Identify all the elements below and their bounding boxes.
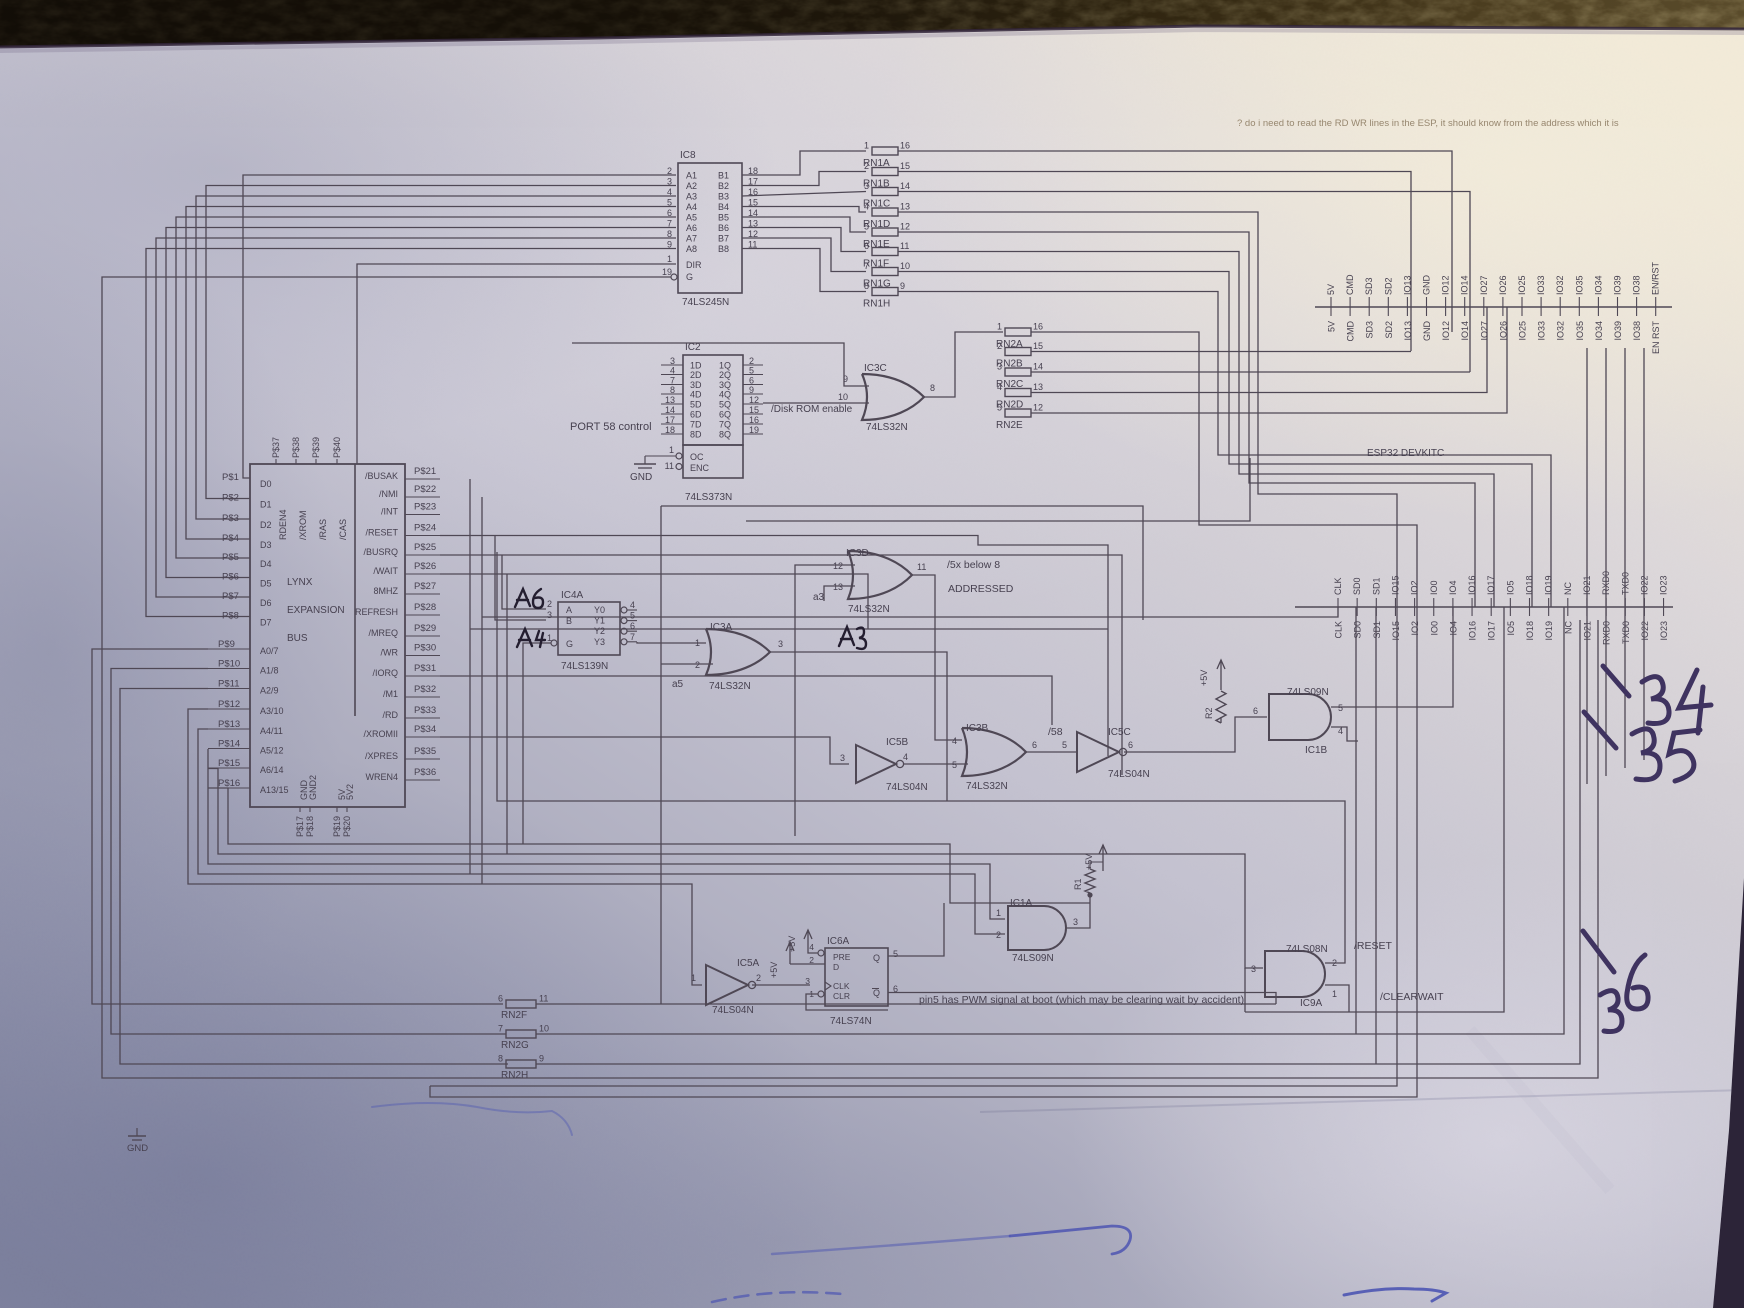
- svg-text:/BUSAK: /BUSAK: [365, 471, 398, 481]
- wire IC2 5Q to IC3C pin10 /Disk ROM enable: [763, 402, 869, 404]
- svg-text:P$18: P$18: [305, 816, 315, 837]
- svg-text:B3: B3: [718, 192, 729, 202]
- resistor network element RN1E: [863, 222, 910, 251]
- svg-text:A4/11: A4/11: [260, 726, 283, 736]
- wire IC4A G to P$16 net: [523, 643, 551, 844]
- svg-text:IC3D: IC3D: [846, 548, 869, 559]
- blue pen stroke bottom center: [712, 1292, 842, 1302]
- svg-text:CLK: CLK: [833, 981, 850, 991]
- svg-text:P$25: P$25: [414, 542, 436, 553]
- svg-text:/IORQ: /IORQ: [372, 668, 398, 678]
- svg-text:7: 7: [498, 1024, 503, 1034]
- svg-text:A6/14: A6/14: [260, 765, 284, 775]
- svg-text:7Q: 7Q: [719, 420, 731, 430]
- svg-text:EN/RST: EN/RST: [1651, 261, 1661, 295]
- wire RN1H staircase to ESP32 bottom header: [898, 292, 1551, 608]
- svg-text:P$10: P$10: [218, 659, 240, 670]
- svg-text:NC: NC: [1563, 621, 1573, 634]
- svg-text:G: G: [686, 272, 693, 282]
- resistor network element RN2G: [498, 1024, 549, 1052]
- svg-text:IO32: IO32: [1556, 321, 1566, 341]
- svg-text:D1: D1: [260, 500, 272, 510]
- svg-text:IO14: IO14: [1460, 321, 1470, 341]
- svg-text:D6: D6: [260, 598, 272, 608]
- svg-text:IO38: IO38: [1632, 275, 1642, 295]
- connector J1 LYNX EXPANSION BUS: [208, 437, 440, 837]
- svg-text:B6: B6: [718, 223, 729, 233]
- svg-text:P$9: P$9: [218, 639, 235, 650]
- svg-text:B5: B5: [718, 213, 729, 223]
- wire RN1F staircase to ESP32 bottom header: [898, 252, 1494, 608]
- wire IC8 pin19 G long net to bottom bus: [102, 277, 1598, 1078]
- svg-text:IO17: IO17: [1486, 575, 1496, 595]
- svg-text:/WAIT: /WAIT: [373, 566, 398, 576]
- svg-text:R1: R1: [1073, 878, 1083, 890]
- svg-text:IC3C: IC3C: [864, 363, 887, 374]
- wire IC1B pin4 stub: [1331, 727, 1358, 741]
- svg-text:14: 14: [1033, 362, 1043, 372]
- svg-text:BUS: BUS: [287, 633, 308, 644]
- svg-text:/CAS: /CAS: [338, 519, 348, 540]
- svg-text:5: 5: [997, 403, 1002, 413]
- resistor network element RN2F: [498, 994, 548, 1022]
- svg-text:2D: 2D: [690, 370, 702, 380]
- svg-text:A6: A6: [686, 223, 697, 233]
- svg-text:1: 1: [667, 254, 672, 264]
- svg-text:IO26: IO26: [1498, 275, 1508, 295]
- svg-text:IO12: IO12: [1441, 275, 1451, 295]
- svg-text:2: 2: [756, 973, 761, 983]
- svg-text:GND: GND: [630, 472, 652, 483]
- svg-text:GND: GND: [1422, 275, 1432, 296]
- svg-text:TXD0: TXD0: [1621, 621, 1631, 644]
- wire long net y617 CLK: [482, 607, 1338, 617]
- svg-text:P$7: P$7: [222, 591, 239, 602]
- svg-text:IO39: IO39: [1613, 321, 1623, 341]
- svg-text:4: 4: [809, 942, 814, 952]
- svg-text:13: 13: [1033, 382, 1043, 392]
- OR gate IC3A 74LS32N: [695, 622, 783, 692]
- svg-text:5: 5: [893, 949, 898, 959]
- svg-text:6: 6: [1253, 706, 1258, 716]
- svg-text:/Disk ROM enable: /Disk ROM enable: [771, 404, 853, 415]
- svg-text:IC1B: IC1B: [1305, 745, 1328, 756]
- svg-text:SD1: SD1: [1371, 577, 1381, 595]
- svg-text:/RESET: /RESET: [1354, 940, 1393, 952]
- wire IC8 B8 to RN1H: [742, 249, 866, 292]
- resistor network element RN1A: [863, 141, 910, 170]
- wire IC1B output pin5 to IO4: [1331, 607, 1453, 707]
- svg-text:IC9A: IC9A: [1300, 998, 1323, 1009]
- wire ESP32 top header net down right side: [1605, 348, 1607, 776]
- svg-text:IO19: IO19: [1544, 621, 1554, 641]
- wire bottom long net y1097 from IO2: [430, 607, 1417, 1097]
- resistor network element RN2E: [996, 403, 1043, 432]
- svg-text:CLK: CLK: [1333, 577, 1343, 595]
- svg-text:7: 7: [630, 632, 635, 642]
- svg-text:5V: 5V: [1326, 284, 1336, 295]
- handwritten mark 35 with slash: [1584, 712, 1700, 781]
- svg-text:a5: a5: [672, 679, 684, 690]
- svg-text:6: 6: [498, 994, 503, 1004]
- svg-text:1: 1: [691, 973, 696, 983]
- svg-text:11: 11: [900, 241, 909, 251]
- inverter IC5B 74LS04N: [840, 737, 928, 793]
- wire bottom long net y1086 from IO15: [430, 607, 1397, 1086]
- svg-text:RN2H: RN2H: [501, 1070, 528, 1081]
- svg-text:IO19: IO19: [1544, 575, 1554, 595]
- svg-text:74LS04N: 74LS04N: [712, 1005, 754, 1016]
- svg-text:4Q: 4Q: [719, 390, 731, 400]
- svg-text:P$24: P$24: [414, 523, 436, 534]
- svg-text:P$1: P$1: [222, 472, 239, 483]
- wire RN2B pin15 to IO13 vertical: [1031, 351, 1411, 353]
- svg-text:IO15: IO15: [1390, 575, 1400, 595]
- wire IC8 A2 to P$2: [206, 186, 676, 499]
- svg-text:4: 4: [997, 382, 1002, 392]
- svg-text:6: 6: [1128, 740, 1133, 750]
- wire IC8 A1 to P$1: [243, 175, 676, 478]
- wire P$22 vertical: [481, 497, 483, 884]
- blue pen stroke faint upper: [372, 1103, 572, 1135]
- OR gate IC3B 74LS32N: [952, 723, 1037, 792]
- svg-text:16: 16: [900, 141, 910, 151]
- svg-text:IO33: IO33: [1536, 275, 1546, 295]
- wire IC5A out to IC6A CLK: [752, 984, 810, 986]
- svg-text:IO5: IO5: [1506, 621, 1516, 636]
- svg-text:Q: Q: [873, 953, 880, 963]
- wire IC9A pin3 riser: [1244, 968, 1246, 1012]
- svg-text:SD3: SD3: [1364, 277, 1374, 295]
- ESP32 DEVKITC top pin header: [1315, 261, 1672, 354]
- wire RN1B to ESP32 IO13: [898, 172, 1411, 352]
- wire a5 net vertical: [660, 506, 662, 1004]
- wire IC8 pin1 DIR: [357, 264, 676, 464]
- wire IC3C pin9 input: [572, 343, 869, 386]
- wire RN2A pin16 staircase to IO2: [1031, 332, 1417, 607]
- svg-text:13: 13: [900, 202, 910, 212]
- svg-text:3Q: 3Q: [719, 380, 731, 390]
- wire RN2D pin13: [1031, 307, 1487, 393]
- wire P$11 to RN2H: [120, 689, 508, 1065]
- svg-text:P$17: P$17: [295, 816, 305, 837]
- wire IC3A output: [770, 652, 947, 801]
- svg-text:74LS04N: 74LS04N: [1108, 769, 1150, 780]
- svg-text:6: 6: [864, 241, 869, 251]
- wire bottom net y1020: [1245, 607, 1504, 1012]
- svg-text:IO15: IO15: [1391, 621, 1401, 641]
- svg-text:RDEN4: RDEN4: [278, 509, 288, 540]
- handwritten mark 36 with slash: [1583, 931, 1648, 1032]
- wire long net y629: [470, 628, 1108, 630]
- svg-text:10: 10: [539, 1024, 549, 1034]
- resistor network element RN1F: [863, 241, 909, 270]
- resistor R2 pullup: [1204, 691, 1226, 723]
- svg-text:D5: D5: [260, 579, 272, 589]
- svg-text:RN2F: RN2F: [501, 1010, 527, 1021]
- svg-text:P$33: P$33: [414, 705, 436, 716]
- svg-text:CMD: CMD: [1346, 321, 1356, 342]
- svg-text:5V: 5V: [1327, 321, 1337, 332]
- svg-text:Q: Q: [873, 988, 880, 998]
- handwritten A6: [515, 589, 543, 608]
- wire IC6A Q output: [888, 903, 944, 956]
- IC IC2 74LS373N latch: [661, 342, 763, 503]
- svg-text:8: 8: [864, 281, 869, 291]
- svg-text:74LS08N: 74LS08N: [1286, 944, 1328, 955]
- svg-text:IC3B: IC3B: [966, 723, 989, 734]
- svg-text:5: 5: [1338, 703, 1343, 713]
- svg-text:SD1: SD1: [1372, 621, 1382, 639]
- svg-text:P$20: P$20: [342, 816, 352, 837]
- svg-text:IO5: IO5: [1505, 580, 1515, 595]
- handwritten mark 34 with slash: [1603, 666, 1711, 733]
- svg-text:/NMI: /NMI: [379, 489, 398, 499]
- svg-text:4: 4: [864, 202, 869, 212]
- wire IC1A output to R1: [1066, 895, 1090, 928]
- svg-text:DIR: DIR: [686, 260, 702, 270]
- svg-text:? do i need to read the RD WR: ? do i need to read the RD WR lines in t…: [1237, 118, 1619, 129]
- svg-text:74LS09N: 74LS09N: [1012, 953, 1054, 964]
- svg-text:B4: B4: [718, 202, 729, 212]
- svg-text:74LS32N: 74LS32N: [966, 781, 1008, 792]
- svg-text:15: 15: [1033, 341, 1043, 351]
- svg-text:P$3: P$3: [222, 513, 239, 524]
- svg-text:1D: 1D: [690, 361, 702, 371]
- svg-text:19: 19: [662, 267, 672, 277]
- wire SD1 drop to RN2H net: [1375, 607, 1377, 1064]
- svg-text:/58: /58: [1048, 726, 1063, 738]
- svg-text:A3: A3: [686, 192, 697, 202]
- svg-text:/XPRES: /XPRES: [365, 751, 398, 761]
- blue pen stroke long bottom: [772, 1236, 1010, 1254]
- svg-text:+5V: +5V: [769, 962, 779, 978]
- svg-text:A1/8: A1/8: [260, 666, 279, 676]
- svg-text:9: 9: [539, 1054, 544, 1064]
- svg-text:P$37: P$37: [271, 437, 281, 458]
- svg-text:74LS74N: 74LS74N: [830, 1016, 872, 1027]
- svg-text:A13/15: A13/15: [260, 785, 289, 795]
- wire P$24 /RESET: [440, 536, 1108, 757]
- svg-text:P$32: P$32: [414, 684, 436, 695]
- svg-text:IO35: IO35: [1574, 275, 1584, 295]
- svg-text:14: 14: [900, 181, 910, 191]
- svg-text:P$38: P$38: [291, 437, 301, 458]
- wire P$26: [440, 574, 868, 629]
- svg-text:P$31: P$31: [414, 663, 436, 674]
- svg-text:REFRESH: REFRESH: [355, 607, 398, 617]
- svg-text:P$14: P$14: [218, 739, 240, 750]
- svg-text:IO34: IO34: [1594, 321, 1604, 341]
- svg-text:ADDRESSED: ADDRESSED: [948, 583, 1014, 595]
- svg-text:3: 3: [840, 753, 845, 763]
- svg-text:6: 6: [630, 621, 635, 631]
- svg-text:12: 12: [1033, 403, 1043, 413]
- wire ESP32 top header net down right side: [1586, 348, 1588, 784]
- wire IC8 B5 to RN1E: [742, 217, 866, 232]
- wire IC9A pin1 /CLEARWAIT: [1325, 985, 1349, 1012]
- resistor network element RN2C: [996, 362, 1043, 391]
- svg-text:74LS373N: 74LS373N: [685, 492, 732, 503]
- resistor network element RN2H: [498, 1054, 544, 1082]
- svg-text:12: 12: [900, 222, 910, 232]
- svg-text:P$23: P$23: [414, 502, 436, 513]
- svg-text:P$6: P$6: [222, 572, 239, 583]
- svg-text:Y3: Y3: [594, 637, 605, 647]
- svg-text:CLK: CLK: [1334, 621, 1344, 639]
- svg-text:5: 5: [952, 760, 957, 770]
- svg-text:B1: B1: [718, 171, 729, 181]
- svg-text:8: 8: [930, 383, 935, 393]
- svg-text:IO2: IO2: [1410, 580, 1420, 595]
- svg-text:/MREQ: /MREQ: [368, 628, 398, 638]
- svg-text:4: 4: [630, 600, 635, 610]
- svg-text:EN RST: EN RST: [1651, 321, 1661, 355]
- svg-text:5V2: 5V2: [345, 784, 355, 800]
- svg-text:/RD: /RD: [383, 710, 399, 720]
- svg-text:IC5A: IC5A: [737, 958, 760, 969]
- svg-text:GND: GND: [1422, 321, 1432, 342]
- power +5V at R1: [1084, 845, 1107, 871]
- wire RN1C to ESP32 IO14: [898, 192, 1470, 373]
- svg-text:P$15: P$15: [218, 758, 240, 769]
- wire IC2 area long net: [661, 506, 1143, 620]
- svg-text:3: 3: [1251, 964, 1256, 974]
- svg-text:IO23: IO23: [1659, 621, 1669, 641]
- svg-text:IC1A: IC1A: [1010, 898, 1033, 909]
- svg-text:ENC: ENC: [690, 463, 710, 473]
- power +5V at R2: [1199, 660, 1225, 690]
- ground symbol GND at IC2 OC: [630, 456, 676, 483]
- svg-text:IO23: IO23: [1659, 575, 1669, 595]
- OR gate IC3D 74LS32N: [833, 548, 926, 615]
- handwritten A4: [517, 629, 545, 647]
- wire P$10 to RN2G: [111, 669, 506, 1035]
- svg-text:11: 11: [665, 461, 674, 471]
- svg-text:IO12: IO12: [1441, 321, 1451, 341]
- wire long net y521: [746, 458, 1250, 521]
- svg-text:Y1: Y1: [594, 616, 605, 626]
- svg-text:/RESET: /RESET: [365, 528, 398, 538]
- svg-text:P$4: P$4: [222, 533, 239, 544]
- wire IC8 A6 to P$6: [166, 228, 676, 578]
- svg-text:RN1H: RN1H: [863, 299, 890, 310]
- svg-text:74LS32N: 74LS32N: [848, 604, 890, 615]
- svg-text:IO32: IO32: [1555, 275, 1565, 295]
- resistor network element RN1D: [863, 202, 910, 231]
- inverter IC5C 74LS04N: [1077, 727, 1150, 780]
- svg-text:SD2: SD2: [1384, 321, 1394, 339]
- wire P$26 branch riser: [506, 574, 508, 854]
- svg-text:B: B: [566, 616, 572, 626]
- svg-text:P$12: P$12: [218, 699, 240, 710]
- svg-text:2: 2: [997, 341, 1002, 351]
- svg-text:A3/10: A3/10: [260, 706, 284, 716]
- svg-text:IC5C: IC5C: [1108, 727, 1131, 738]
- svg-text:11: 11: [539, 994, 548, 1004]
- svg-text:A7: A7: [686, 234, 697, 244]
- wire IC6A CLR loop: [806, 994, 888, 1010]
- svg-text:CMD: CMD: [1345, 274, 1355, 295]
- svg-text:3: 3: [864, 181, 869, 191]
- svg-text:IO39: IO39: [1613, 275, 1623, 295]
- svg-text:4: 4: [903, 752, 908, 762]
- wire IC5C out to IC1B pin6: [1124, 717, 1267, 752]
- svg-text:4: 4: [952, 736, 957, 746]
- svg-text:IO17: IO17: [1487, 621, 1497, 641]
- svg-text:R2: R2: [1204, 707, 1214, 719]
- wire IC4A Y3 to IC3A pin1: [637, 642, 706, 643]
- svg-text:7D: 7D: [690, 420, 702, 430]
- svg-text:IC3A: IC3A: [710, 622, 733, 633]
- svg-text:10: 10: [900, 261, 910, 271]
- svg-text:G: G: [566, 639, 573, 649]
- wire IC8 B1 to RN1A: [742, 151, 866, 175]
- svg-text:A: A: [566, 605, 572, 615]
- wire P$13 to IC1A pin2: [198, 729, 1005, 934]
- AND gate IC1A 74LS09N: [996, 898, 1078, 964]
- wire P$15 staircase: [208, 769, 1263, 969]
- wire IC6A Qbar output: [888, 993, 1276, 1005]
- svg-text:A1: A1: [686, 171, 697, 181]
- ground symbol GND bottom left: [127, 1128, 148, 1154]
- svg-text:B8: B8: [718, 244, 729, 254]
- svg-text:IO18: IO18: [1525, 575, 1535, 595]
- wire IC8 B2 to RN1B: [742, 172, 866, 186]
- svg-text:P$40: P$40: [332, 437, 342, 458]
- handwritten A3: [839, 627, 866, 649]
- svg-text:P$11: P$11: [218, 679, 239, 690]
- wire IC3B out to IC5C: [1026, 751, 1077, 753]
- svg-text:P$21: P$21: [414, 466, 436, 477]
- svg-text:/RAS: /RAS: [318, 519, 328, 540]
- svg-text:1: 1: [1332, 989, 1337, 999]
- svg-text:IO2: IO2: [1410, 621, 1420, 636]
- blue pen stroke long bottom right part: [1010, 1226, 1131, 1254]
- wire RN1E staircase to ESP32 bottom header: [898, 232, 1475, 607]
- wire IC3D pin13: [824, 586, 855, 601]
- svg-text:1Q: 1Q: [719, 361, 731, 371]
- svg-text:IO25: IO25: [1518, 321, 1528, 341]
- IC IC8 74LS245N bus transceiver: [662, 150, 758, 308]
- svg-text:2: 2: [996, 930, 1001, 940]
- svg-text:P$22: P$22: [414, 484, 436, 495]
- svg-text:SD3: SD3: [1365, 321, 1375, 339]
- svg-text:IO13: IO13: [1403, 321, 1413, 341]
- svg-text:5Q: 5Q: [719, 400, 731, 410]
- resistor network element RN2D: [996, 382, 1043, 411]
- wire IC8 A7 to P$7: [156, 238, 676, 597]
- OR gate IC3C 74LS32N: [838, 363, 935, 433]
- svg-text:D4: D4: [260, 559, 272, 569]
- wire IC8 A5 to P$5: [176, 217, 676, 558]
- svg-text:A0/7: A0/7: [260, 646, 279, 656]
- svg-text:P$28: P$28: [414, 602, 436, 613]
- svg-text:PORT 58 control: PORT 58 control: [570, 421, 652, 433]
- wire IC9A output pin2 /RESET big loop: [497, 552, 1345, 963]
- svg-text:/BUSRQ: /BUSRQ: [363, 547, 398, 557]
- svg-text:IO33: IO33: [1537, 321, 1547, 341]
- svg-text:NC: NC: [1563, 582, 1573, 595]
- wire RN2H right to riser: [536, 620, 1580, 1064]
- svg-text:D0: D0: [260, 479, 272, 489]
- AND gate IC1B 74LS09N: [1269, 687, 1343, 756]
- svg-text:GND: GND: [127, 1143, 148, 1154]
- svg-text:IO18: IO18: [1525, 621, 1535, 641]
- svg-text:D3: D3: [260, 540, 272, 550]
- wire P$9 to RN2F: [92, 649, 503, 1004]
- svg-text:A2: A2: [686, 181, 697, 191]
